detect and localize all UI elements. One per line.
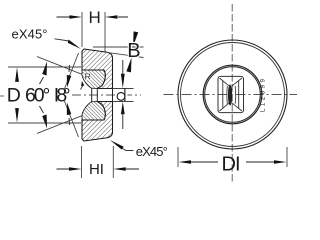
svg-text:D: D xyxy=(7,85,21,107)
dimension B arrow top xyxy=(133,31,138,46)
bore line bottom xyxy=(97,101,112,103)
bore line top xyxy=(97,88,112,90)
dimension DI extension right xyxy=(286,147,288,167)
metal ring section lower half xyxy=(82,102,113,142)
angle line upper steep xyxy=(64,53,79,90)
slot xyxy=(228,85,232,106)
angle line upper shallow xyxy=(37,57,82,75)
dimension d arrow bottom xyxy=(121,102,125,129)
svg-text:H: H xyxy=(89,161,100,178)
dimension d extension bottom xyxy=(113,101,134,103)
seal insert section upper half xyxy=(82,70,105,89)
angle arrow upper-right xyxy=(67,65,72,88)
dimension H extension left xyxy=(81,12,83,47)
angle line lower shallow xyxy=(37,116,82,134)
dimension d extension top xyxy=(113,88,134,90)
dimension D arrow up xyxy=(15,67,19,82)
radius label R leader xyxy=(81,81,85,90)
recess wall right xyxy=(238,81,240,109)
bore wall right xyxy=(96,89,98,102)
svg-text:8°: 8° xyxy=(56,85,70,107)
angle arrow lower-right xyxy=(67,103,72,126)
right view vertical centerline xyxy=(231,4,233,183)
svg-text:H: H xyxy=(89,8,101,27)
angle arrow lower-left xyxy=(40,106,48,129)
angle arrow upper-left xyxy=(40,62,48,85)
recess diagonal br xyxy=(232,103,242,111)
svg-text:60°: 60° xyxy=(25,85,50,107)
right view horizontal centerline xyxy=(164,94,298,96)
dimension H extension right xyxy=(104,12,106,52)
dimension D extension top xyxy=(8,66,81,68)
recess diagonal tr xyxy=(232,78,242,86)
dimension HI arrow right xyxy=(113,167,139,171)
dimension DI arrow right xyxy=(246,160,287,164)
leader top-left xyxy=(55,39,82,49)
dimension B arrow bottom xyxy=(126,58,131,73)
recess diagonal bl xyxy=(220,103,230,111)
outer circle xyxy=(178,40,287,149)
svg-text:I: I xyxy=(100,161,104,178)
recess wall left xyxy=(222,81,224,109)
dimension H arrow right xyxy=(105,15,128,19)
inner circle outer xyxy=(203,65,262,124)
recess diagonal tl xyxy=(220,78,230,86)
svg-text:I: I xyxy=(235,154,241,176)
bore wall left xyxy=(91,88,93,102)
chamfer circle xyxy=(181,43,285,147)
dimension H arrow left xyxy=(57,15,83,19)
svg-text:R: R xyxy=(85,72,91,82)
leader bottom-right xyxy=(110,140,134,151)
dimension D arrow down xyxy=(15,108,19,123)
wire: centerline tick at far left edge xyxy=(0,95,4,97)
inner circle inner xyxy=(205,67,261,123)
svg-text:B: B xyxy=(127,40,140,62)
dimension DI arrow left xyxy=(179,160,219,164)
dimension HI extension left xyxy=(81,146,83,178)
angle line lower steep xyxy=(64,100,79,137)
dimension B extension slanted xyxy=(106,52,144,57)
slot flank left xyxy=(226,86,228,104)
slot flank right xyxy=(234,86,236,104)
bore right closure xyxy=(112,89,114,102)
dimension HI arrow left xyxy=(57,167,82,171)
wire: horizontal centerline left view xyxy=(72,94,141,96)
metal ring section upper half xyxy=(82,49,113,89)
svg-text:D: D xyxy=(222,154,236,176)
dimension DI extension left xyxy=(177,147,179,167)
dimension D extension bottom xyxy=(8,122,81,124)
dimension d arrow top xyxy=(121,60,125,88)
label d xyxy=(117,88,128,101)
seal insert section lower half xyxy=(82,102,105,121)
dimension B extension top xyxy=(93,46,144,48)
recess outer rectangle xyxy=(218,76,244,112)
svg-text:eX45°: eX45° xyxy=(136,144,168,159)
svg-text:eX45°: eX45° xyxy=(12,27,48,42)
dimension HI extension right xyxy=(112,146,114,178)
